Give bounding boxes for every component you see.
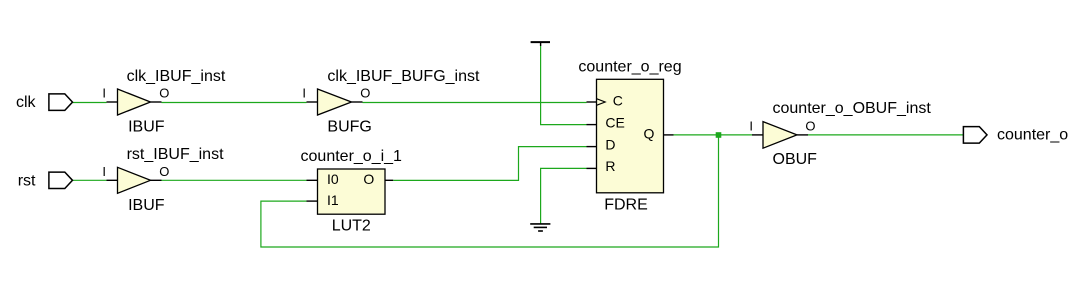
svg-text:O: O	[805, 118, 815, 133]
svg-text:Q: Q	[644, 126, 655, 142]
svg-text:R: R	[605, 158, 615, 174]
svg-text:OBUF: OBUF	[773, 151, 818, 168]
svg-text:C: C	[613, 93, 623, 109]
svg-text:LUT2: LUT2	[332, 217, 371, 234]
svg-text:clk_IBUF_inst: clk_IBUF_inst	[127, 68, 226, 85]
svg-text:counter_o_reg: counter_o_reg	[578, 59, 681, 76]
svg-text:clk_IBUF_BUFG_inst: clk_IBUF_BUFG_inst	[327, 68, 480, 85]
svg-text:D: D	[605, 137, 615, 153]
svg-text:I1: I1	[327, 192, 339, 208]
svg-text:IBUF: IBUF	[128, 119, 165, 136]
svg-text:I: I	[102, 86, 106, 101]
svg-text:rst: rst	[18, 172, 36, 189]
svg-text:rst_IBUF_inst: rst_IBUF_inst	[127, 146, 224, 163]
svg-text:FDRE: FDRE	[604, 196, 648, 213]
svg-text:O: O	[360, 86, 370, 101]
svg-text:O: O	[159, 86, 169, 101]
svg-text:O: O	[363, 171, 374, 187]
svg-text:IBUF: IBUF	[128, 197, 165, 214]
svg-text:counter_o: counter_o	[997, 127, 1068, 144]
svg-text:I: I	[102, 164, 106, 179]
svg-text:I: I	[302, 86, 306, 101]
svg-text:CE: CE	[605, 115, 624, 131]
svg-text:I0: I0	[327, 171, 339, 187]
svg-text:BUFG: BUFG	[327, 119, 371, 136]
svg-text:O: O	[159, 164, 169, 179]
svg-text:I: I	[749, 118, 753, 133]
svg-text:clk: clk	[16, 94, 37, 111]
svg-text:counter_o_i_1: counter_o_i_1	[301, 148, 403, 165]
svg-text:counter_o_OBUF_inst: counter_o_OBUF_inst	[773, 100, 932, 117]
